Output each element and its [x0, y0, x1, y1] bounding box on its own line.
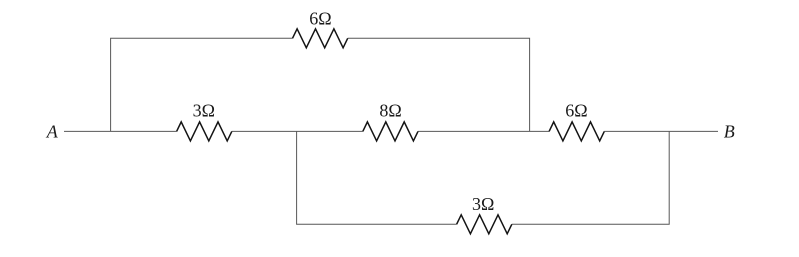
svg-text:A: A	[46, 122, 59, 142]
svg-text:6Ω: 6Ω	[565, 101, 587, 121]
svg-text:B: B	[724, 122, 735, 142]
svg-text:3Ω: 3Ω	[193, 101, 215, 121]
svg-text:3Ω: 3Ω	[472, 194, 494, 214]
svg-text:8Ω: 8Ω	[379, 101, 401, 121]
svg-text:6Ω: 6Ω	[309, 9, 331, 29]
